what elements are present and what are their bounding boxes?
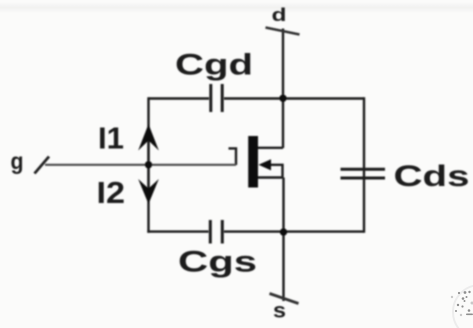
svg-text:g: g — [11, 148, 24, 174]
svg-text:Cgs: Cgs — [178, 246, 257, 279]
svg-text:d: d — [272, 5, 287, 25]
svg-text:I1: I1 — [98, 121, 124, 156]
svg-text:Cds: Cds — [394, 160, 470, 193]
svg-text:s: s — [273, 300, 286, 323]
svg-text:I2: I2 — [97, 175, 126, 210]
svg-text:Cgd: Cgd — [175, 49, 253, 82]
